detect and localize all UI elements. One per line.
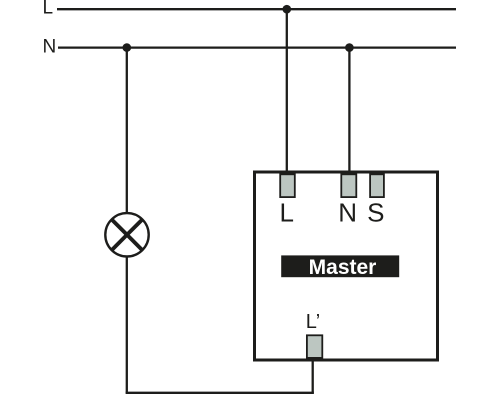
svg-text:N: N <box>43 37 57 58</box>
svg-text:L’: L’ <box>306 311 320 333</box>
svg-text:L: L <box>279 197 293 227</box>
svg-text:N: N <box>338 197 357 227</box>
svg-text:Master: Master <box>309 256 377 279</box>
svg-text:S: S <box>367 197 384 227</box>
svg-text:L: L <box>43 0 54 19</box>
